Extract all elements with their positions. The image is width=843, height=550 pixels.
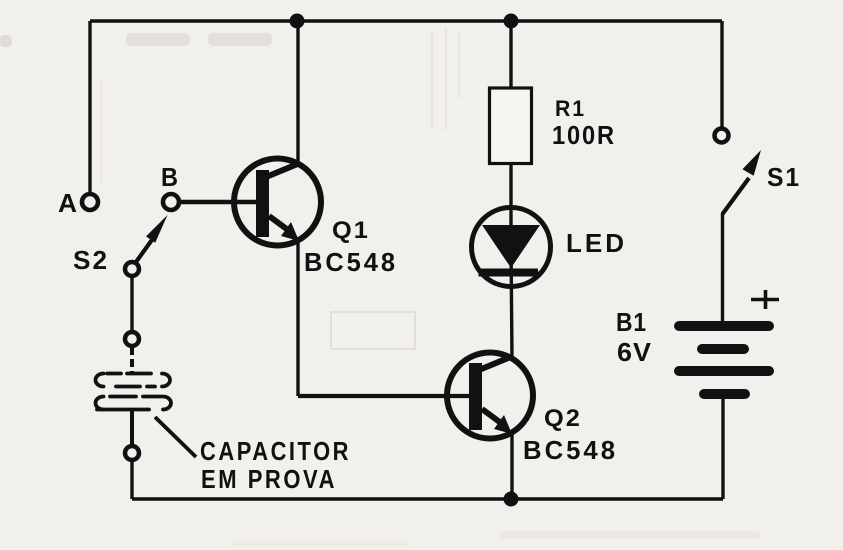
ghost mark top-left blob 1 [126, 33, 190, 46]
ghost vertical line [445, 28, 447, 130]
svg-text:BC548: BC548 [523, 435, 618, 465]
battery B1 [674, 321, 774, 399]
ghost bottom stripe 1 [500, 531, 760, 539]
svg-text:S2: S2 [73, 245, 109, 275]
wire S1 to battery [721, 213, 724, 325]
svg-text:LED: LED [566, 228, 627, 258]
svg-text:A: A [58, 188, 77, 218]
wire terminal to capacitor top (dashed lead) [130, 347, 134, 374]
svg-text:B1: B1 [616, 307, 647, 337]
label CAPACITOR EM PROVA [200, 436, 351, 494]
wire top rail right corner down to S1 [720, 21, 723, 128]
transistor Q1 BC548 [234, 159, 321, 246]
svg-text:S1: S1 [767, 162, 801, 192]
lower capacitor terminal [125, 446, 139, 460]
wire B to Q1 base [181, 200, 256, 204]
wire R1 to LED [509, 165, 512, 248]
resistor R1 [490, 88, 532, 164]
ghost mark top-left blob 2 [208, 33, 272, 46]
svg-text:Q1: Q1 [332, 217, 370, 244]
transistor Q2 BC548 [447, 353, 533, 439]
wire Q2 emitter to bottom rail [510, 433, 513, 499]
node junction dot bottom rail [504, 492, 519, 507]
LED D1 [472, 208, 551, 287]
terminal B [163, 194, 179, 210]
wire Q1 emitter down [296, 240, 299, 396]
svg-text:6V: 6V [617, 337, 652, 367]
ghost vertical line 2 [431, 30, 434, 128]
ghost bottom stripe 2 [230, 540, 410, 546]
svg-text:R1: R1 [555, 96, 586, 121]
svg-text:BC548: BC548 [304, 247, 398, 277]
terminal above capacitor [125, 332, 139, 346]
wire top rail [90, 19, 722, 22]
ghost mark left edge smudge [0, 35, 12, 47]
svg-text:100R: 100R [552, 122, 616, 150]
wire left vertical from top rail to terminal A [88, 21, 91, 193]
wire Q1 collector to top rail [296, 21, 299, 162]
switch S2 pole terminal [125, 262, 139, 276]
wire Q1 emitter to Q2 base [298, 394, 469, 398]
wire top rail to R1 [509, 21, 512, 87]
switch S1 terminal [715, 129, 729, 143]
switch S1 arm with arrowhead [723, 150, 762, 214]
svg-text:EM PROVA: EM PROVA [201, 464, 337, 494]
leader line to capacitor label [155, 417, 196, 457]
terminal A [82, 194, 98, 210]
wire S2 down to capacitor terminal [130, 276, 133, 331]
switch S2 arm with arrowhead [136, 215, 168, 262]
battery plus sign [751, 290, 779, 309]
wire bottom rail [132, 497, 723, 500]
node junction dot at Q1 collector on top rail [290, 14, 305, 29]
capacitor under test (dashed plate outlines) [96, 374, 172, 410]
wire battery to bottom rail [721, 394, 724, 499]
node junction dot at R1 on top rail [504, 14, 519, 29]
svg-text:B: B [161, 162, 178, 192]
svg-text:Q2: Q2 [544, 405, 582, 432]
ghost vertical line 3 [458, 32, 461, 98]
ghost rectangle outline center [331, 312, 415, 349]
ghost vertical line 4 [100, 80, 103, 185]
svg-text:CAPACITOR: CAPACITOR [200, 436, 351, 466]
wire LED to Q2 collector [511, 246, 512, 357]
wire lower terminal to bottom rail [130, 460, 133, 499]
wire capacitor bottom to lower terminal [130, 409, 134, 445]
